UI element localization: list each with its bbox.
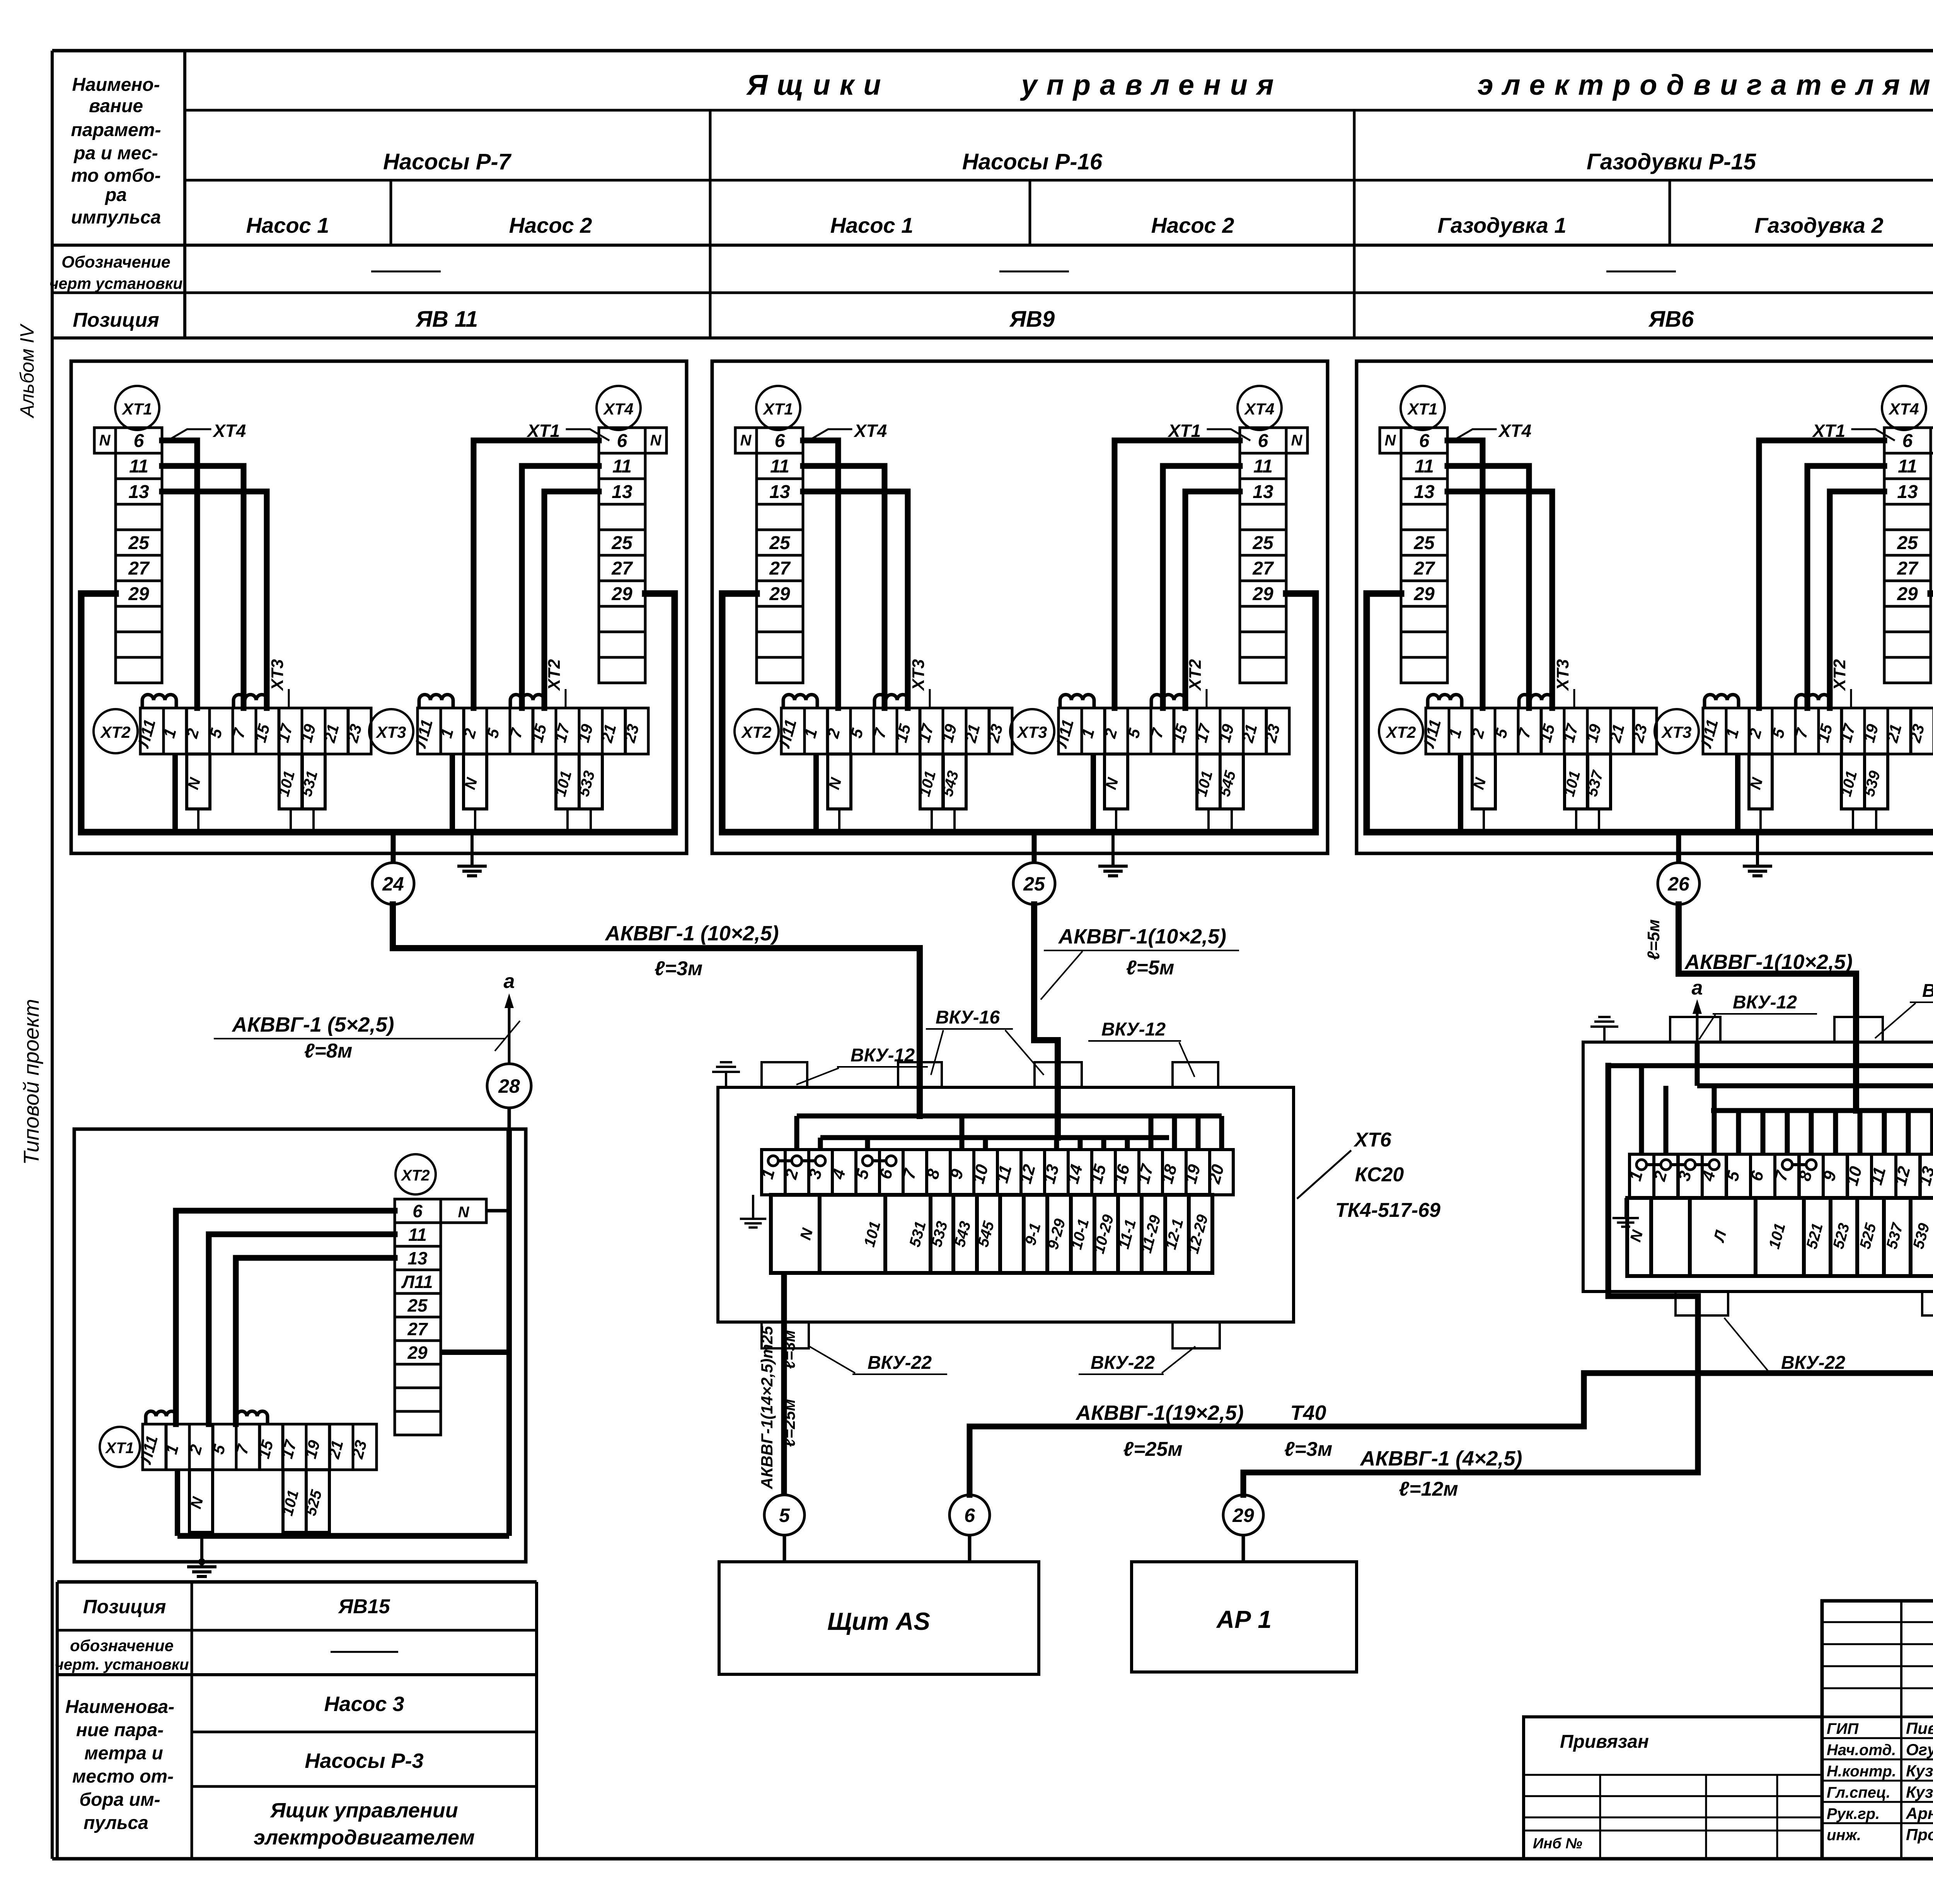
svg-text:13: 13 — [1253, 482, 1273, 502]
svg-text:Наименова-: Наименова- — [65, 1697, 174, 1717]
svg-text:27: 27 — [1252, 558, 1274, 579]
svg-text:Ящики: Ящики — [746, 69, 890, 101]
svg-text:черт. установки: черт. установки — [55, 1656, 189, 1673]
svg-text:23: 23 — [620, 722, 643, 745]
svg-text:ХТ1: ХТ1 — [121, 400, 152, 418]
svg-text:6: 6 — [617, 431, 627, 451]
svg-text:импульса: импульса — [71, 207, 161, 228]
svg-text:Н.контр.: Н.контр. — [1827, 1763, 1896, 1780]
svg-text:19: 19 — [301, 1438, 324, 1460]
svg-text:6: 6 — [775, 431, 785, 451]
svg-text:инж.: инж. — [1827, 1827, 1861, 1844]
svg-text:13: 13 — [1897, 482, 1918, 502]
svg-text:ℓ=25м: ℓ=25м — [780, 1399, 798, 1447]
svg-text:управления: управления — [1019, 69, 1283, 101]
svg-text:N: N — [740, 432, 752, 449]
svg-text:19: 19 — [297, 722, 319, 744]
svg-text:N: N — [797, 1226, 816, 1242]
svg-text:521: 521 — [1803, 1222, 1826, 1251]
svg-text:ℓ=5м: ℓ=5м — [1126, 957, 1174, 979]
svg-text:15: 15 — [1536, 722, 1558, 744]
svg-text:101: 101 — [861, 1220, 884, 1249]
svg-text:ра и мес-: ра и мес- — [73, 143, 158, 164]
svg-text:ХТ1: ХТ1 — [526, 421, 560, 441]
svg-text:Позиция: Позиция — [73, 309, 159, 331]
svg-text:электродвигателями: электродвигателями — [1478, 69, 1933, 101]
svg-text:Нач.отд.: Нач.отд. — [1827, 1742, 1896, 1759]
svg-text:21: 21 — [1238, 722, 1261, 745]
svg-text:Газодувка 2: Газодувка 2 — [1754, 213, 1883, 237]
svg-text:6: 6 — [413, 1201, 423, 1221]
svg-text:Л11: Л11 — [1052, 717, 1077, 750]
svg-text:метра и: метра и — [84, 1743, 163, 1764]
svg-text:ХТ4: ХТ4 — [1244, 400, 1274, 418]
svg-text:14: 14 — [1063, 1162, 1086, 1186]
svg-text:Арнаутова: Арнаутова — [1906, 1804, 1933, 1822]
svg-text:25: 25 — [1897, 533, 1918, 553]
svg-text:Насосы Р-16: Насосы Р-16 — [962, 149, 1103, 174]
svg-text:29: 29 — [769, 584, 790, 604]
svg-text:ЯВ9: ЯВ9 — [1009, 307, 1055, 332]
svg-text:ХТ4: ХТ4 — [1498, 421, 1531, 441]
svg-text:АКВВГ-1 (5×2,5): АКВВГ-1 (5×2,5) — [232, 1013, 394, 1036]
svg-text:N: N — [1627, 1228, 1646, 1244]
svg-text:АКВВГ-1 (4×2,5): АКВВГ-1 (4×2,5) — [1360, 1447, 1522, 1470]
svg-text:23: 23 — [1261, 722, 1284, 745]
svg-text:19: 19 — [1215, 722, 1238, 744]
svg-text:27: 27 — [128, 558, 150, 579]
svg-text:6: 6 — [134, 431, 144, 451]
svg-text:ХТ3: ХТ3 — [909, 659, 928, 692]
svg-text:6: 6 — [1419, 431, 1430, 451]
svg-text:11: 11 — [129, 456, 148, 477]
svg-text:парамет-: парамет- — [71, 120, 161, 140]
svg-text:ℓ=3м: ℓ=3м — [1284, 1438, 1333, 1460]
svg-text:ние пара-: ние пара- — [76, 1720, 164, 1740]
svg-text:6: 6 — [964, 1505, 975, 1526]
svg-text:13: 13 — [612, 482, 632, 502]
svg-text:ХТ4: ХТ4 — [212, 421, 246, 441]
svg-text:27: 27 — [1897, 558, 1919, 579]
svg-text:23: 23 — [343, 722, 365, 745]
svg-text:13: 13 — [128, 482, 149, 502]
svg-text:525: 525 — [1856, 1221, 1880, 1251]
svg-text:11: 11 — [1253, 456, 1273, 477]
svg-text:25: 25 — [128, 533, 150, 553]
svg-text:27: 27 — [769, 558, 791, 579]
svg-text:ВКУ-12: ВКУ-12 — [1733, 992, 1797, 1013]
svg-text:ЯВ15: ЯВ15 — [338, 1595, 390, 1618]
svg-text:Насосы Р-3: Насосы Р-3 — [305, 1749, 423, 1773]
svg-text:17: 17 — [278, 1438, 300, 1460]
svg-text:26: 26 — [1667, 873, 1690, 895]
svg-text:ра: ра — [104, 185, 127, 205]
svg-text:24: 24 — [382, 873, 404, 895]
svg-text:6: 6 — [1258, 431, 1268, 451]
svg-text:ХТ3: ХТ3 — [375, 723, 406, 741]
svg-text:Инб №: Инб № — [1533, 1836, 1582, 1852]
svg-text:21: 21 — [324, 1438, 347, 1461]
svg-text:АКВВГ-1(10×2,5): АКВВГ-1(10×2,5) — [1684, 950, 1853, 974]
svg-text:23: 23 — [1628, 722, 1651, 745]
svg-text:101: 101 — [1766, 1222, 1789, 1251]
svg-text:пульса: пульса — [84, 1813, 148, 1833]
svg-text:13: 13 — [1040, 1162, 1063, 1186]
svg-text:Огурцов: Огурцов — [1906, 1740, 1933, 1759]
svg-text:15: 15 — [1169, 722, 1191, 744]
svg-text:21: 21 — [1883, 722, 1905, 745]
svg-text:ХТ2: ХТ2 — [545, 659, 564, 691]
svg-text:13: 13 — [407, 1248, 428, 1268]
svg-text:ХТ4: ХТ4 — [603, 400, 633, 418]
svg-text:ℓ=5м: ℓ=5м — [1644, 919, 1663, 960]
svg-text:Позиция: Позиция — [83, 1596, 166, 1617]
svg-text:ХТ2: ХТ2 — [401, 1167, 430, 1184]
svg-text:15: 15 — [254, 1438, 277, 1460]
svg-text:27: 27 — [611, 558, 633, 579]
svg-text:обозначение: обозначение — [70, 1636, 174, 1655]
svg-text:19: 19 — [1582, 722, 1605, 744]
svg-text:Л11: Л11 — [1696, 717, 1722, 750]
svg-text:25: 25 — [1413, 533, 1435, 553]
svg-text:539: 539 — [1910, 1221, 1933, 1251]
svg-text:17: 17 — [274, 722, 296, 744]
svg-text:Наимено-: Наимено- — [72, 75, 160, 95]
svg-text:537: 537 — [1883, 1221, 1906, 1251]
svg-text:Л11: Л11 — [401, 1272, 433, 1292]
svg-text:Т40: Т40 — [1290, 1401, 1326, 1425]
svg-text:23: 23 — [984, 722, 1006, 745]
svg-text:Насос 1: Насос 1 — [830, 213, 914, 237]
svg-text:ВКУ-22: ВКУ-22 — [868, 1353, 932, 1373]
svg-text:11: 11 — [1415, 456, 1434, 477]
svg-text:29: 29 — [1232, 1505, 1254, 1526]
svg-text:ℓ=3м: ℓ=3м — [655, 957, 703, 980]
svg-text:6: 6 — [1902, 431, 1913, 451]
svg-text:ХТ4: ХТ4 — [853, 421, 887, 441]
svg-text:11: 11 — [770, 456, 789, 477]
svg-text:N: N — [1385, 432, 1396, 449]
svg-text:АКВВГ-1(19×2,5): АКВВГ-1(19×2,5) — [1075, 1401, 1244, 1425]
svg-text:АКВВГ-1(10×2,5): АКВВГ-1(10×2,5) — [1058, 925, 1226, 948]
svg-text:Проимкина: Проимкина — [1906, 1826, 1933, 1844]
svg-text:ТК4-517-69: ТК4-517-69 — [1335, 1199, 1440, 1222]
svg-text:29: 29 — [611, 584, 632, 604]
svg-text:Рук.гр.: Рук.гр. — [1827, 1805, 1880, 1822]
svg-text:29: 29 — [128, 584, 149, 604]
svg-text:15: 15 — [528, 722, 550, 744]
svg-text:11: 11 — [612, 456, 632, 477]
svg-text:ХТ1: ХТ1 — [105, 1440, 134, 1457]
svg-text:Насос 2: Насос 2 — [1151, 213, 1234, 237]
svg-text:25: 25 — [407, 1295, 428, 1315]
svg-text:Насос 1: Насос 1 — [246, 213, 329, 237]
svg-text:Кузнецов: Кузнецов — [1906, 1783, 1933, 1801]
svg-text:N: N — [458, 1204, 470, 1221]
svg-text:15: 15 — [1814, 722, 1836, 744]
svg-text:29: 29 — [1897, 584, 1918, 604]
svg-text:21: 21 — [961, 722, 984, 745]
svg-text:Кузнецов: Кузнецов — [1906, 1762, 1933, 1780]
svg-text:ХТ2: ХТ2 — [100, 723, 130, 741]
svg-text:ℓ=3м: ℓ=3м — [780, 1330, 798, 1369]
svg-text:531: 531 — [906, 1220, 929, 1249]
svg-text:ХТ3: ХТ3 — [1016, 723, 1047, 741]
svg-text:25: 25 — [1023, 873, 1045, 895]
svg-text:Насос 2: Насос 2 — [509, 213, 592, 237]
svg-text:электродвигателем: электродвигателем — [254, 1826, 475, 1849]
svg-text:11: 11 — [408, 1225, 427, 1245]
svg-text:ХТ3: ХТ3 — [1553, 659, 1572, 692]
svg-text:17: 17 — [1559, 722, 1582, 744]
svg-text:19: 19 — [1860, 722, 1882, 744]
svg-text:АКВВГ-1 (10×2,5): АКВВГ-1 (10×2,5) — [605, 922, 779, 945]
svg-text:19: 19 — [938, 722, 960, 744]
svg-text:N: N — [1291, 432, 1303, 449]
svg-text:17: 17 — [915, 722, 937, 744]
svg-text:ХТ1: ХТ1 — [1167, 421, 1201, 441]
svg-text:15: 15 — [892, 722, 914, 744]
svg-text:17: 17 — [1192, 722, 1214, 744]
svg-text:ВКУ-22: ВКУ-22 — [1781, 1353, 1845, 1373]
svg-text:17: 17 — [1836, 722, 1859, 744]
svg-text:N: N — [650, 432, 662, 449]
svg-text:11: 11 — [1898, 456, 1917, 477]
svg-text:29: 29 — [407, 1343, 428, 1363]
svg-text:5: 5 — [779, 1505, 790, 1526]
svg-text:Типовой проект: Типовой проект — [19, 999, 43, 1165]
svg-text:ХТ2: ХТ2 — [1186, 659, 1205, 691]
svg-text:Л: Л — [1710, 1228, 1730, 1244]
svg-text:Л11: Л11 — [411, 717, 436, 750]
svg-text:ВКУ-22: ВКУ-22 — [1091, 1353, 1155, 1373]
svg-text:ВКУ-12: ВКУ-12 — [851, 1045, 915, 1066]
svg-text:ХТ2: ХТ2 — [1830, 659, 1849, 691]
svg-text:бора им-: бора им- — [79, 1790, 160, 1810]
svg-text:КС20: КС20 — [1355, 1164, 1404, 1186]
svg-text:Пивторак: Пивторак — [1906, 1719, 1933, 1737]
svg-text:Насосы Р-7: Насосы Р-7 — [383, 149, 512, 174]
svg-text:Щит АS: Щит АS — [827, 1607, 930, 1635]
svg-text:13: 13 — [769, 482, 790, 502]
svg-text:523: 523 — [1830, 1222, 1853, 1251]
svg-text:19: 19 — [574, 722, 597, 744]
svg-text:Газодувки Р-15: Газодувки Р-15 — [1587, 149, 1756, 174]
svg-text:ℓ=12м: ℓ=12м — [1399, 1478, 1458, 1500]
svg-text:АКВВГ-1(14×2,5)т25: АКВВГ-1(14×2,5)т25 — [758, 1326, 776, 1489]
svg-text:ХТ1: ХТ1 — [762, 400, 793, 418]
svg-text:27: 27 — [407, 1319, 428, 1339]
svg-text:место от-: место от- — [72, 1766, 174, 1787]
svg-text:ЯВ6: ЯВ6 — [1648, 307, 1694, 332]
svg-text:23: 23 — [1906, 722, 1928, 745]
svg-text:15: 15 — [251, 722, 273, 744]
svg-text:Привязан: Привязан — [1560, 1732, 1649, 1752]
svg-text:Обозначение: Обозначение — [61, 253, 170, 271]
svg-text:13: 13 — [1414, 482, 1435, 502]
svg-text:N: N — [99, 432, 111, 449]
svg-text:25: 25 — [1252, 533, 1274, 553]
svg-text:ХТ2: ХТ2 — [741, 723, 771, 741]
svg-text:Альбом IV: Альбом IV — [16, 323, 38, 419]
svg-text:Газодувка 1: Газодувка 1 — [1437, 213, 1566, 237]
svg-text:ХТ3: ХТ3 — [1661, 723, 1691, 741]
svg-text:АР 1: АР 1 — [1216, 1605, 1272, 1633]
svg-text:29: 29 — [1252, 584, 1273, 604]
svg-text:а: а — [504, 970, 515, 993]
svg-text:ХТ4: ХТ4 — [1888, 400, 1919, 418]
svg-text:ХТ1: ХТ1 — [1812, 421, 1845, 441]
svg-text:28: 28 — [498, 1075, 520, 1097]
svg-text:а: а — [1692, 977, 1703, 999]
svg-text:Гл.спец.: Гл.спец. — [1827, 1784, 1890, 1801]
svg-text:ХТ3: ХТ3 — [268, 659, 287, 692]
svg-text:Ящик управлении: Ящик управлении — [269, 1799, 458, 1822]
svg-text:вание: вание — [89, 96, 143, 116]
svg-text:ℓ=25м: ℓ=25м — [1123, 1438, 1183, 1460]
svg-text:Насос 3: Насос 3 — [324, 1692, 404, 1716]
svg-text:21: 21 — [320, 722, 343, 745]
svg-text:ВКУ-12: ВКУ-12 — [1101, 1019, 1166, 1040]
svg-text:20: 20 — [1205, 1162, 1228, 1186]
svg-text:ℓ=8м: ℓ=8м — [304, 1040, 353, 1062]
svg-text:ГИП: ГИП — [1827, 1720, 1859, 1737]
svg-text:21: 21 — [1606, 722, 1628, 745]
svg-text:13: 13 — [1915, 1164, 1933, 1187]
svg-text:ХТ2: ХТ2 — [1385, 723, 1416, 741]
svg-text:29: 29 — [1413, 584, 1435, 604]
svg-text:ХТ1: ХТ1 — [1407, 400, 1437, 418]
svg-text:ХТ6: ХТ6 — [1353, 1129, 1391, 1151]
svg-text:27: 27 — [1413, 558, 1435, 579]
svg-text:черт установки: черт установки — [49, 275, 183, 292]
svg-text:25: 25 — [611, 533, 633, 553]
svg-text:то отбо-: то отбо- — [71, 165, 161, 186]
svg-text:ВКУ-16: ВКУ-16 — [936, 1007, 1000, 1028]
svg-text:17: 17 — [551, 722, 573, 744]
svg-text:ЯВ 11: ЯВ 11 — [415, 307, 478, 332]
svg-text:ВКУ-12: ВКУ-12 — [1922, 981, 1933, 1001]
svg-text:21: 21 — [597, 722, 620, 745]
svg-text:23: 23 — [348, 1438, 370, 1461]
svg-text:25: 25 — [769, 533, 791, 553]
